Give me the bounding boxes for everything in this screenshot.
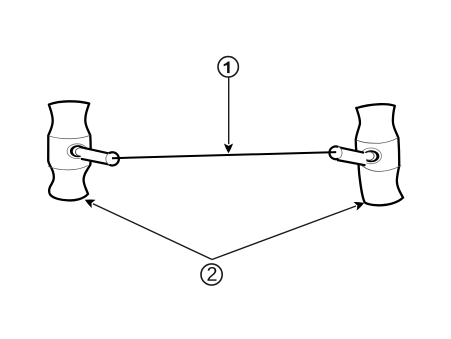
right pin body — [336, 147, 367, 165]
callout 2 label digit 2 — [207, 267, 216, 281]
callout 1 leader line — [228, 77, 230, 144]
callout 1 circle — [218, 57, 238, 77]
right cap seam arc — [338, 147, 342, 159]
right pin base seam ellipse — [365, 152, 375, 160]
left hub bold ring — [70, 145, 86, 157]
right roller body — [356, 104, 403, 205]
callout 2 left leader line — [93, 204, 212, 260]
cable between rollers — [112, 152, 336, 158]
right hub bold ring — [363, 150, 380, 162]
callout 2 circle — [201, 264, 222, 285]
callout 2 right leader line — [212, 206, 356, 260]
left cap seam arc — [106, 153, 109, 164]
left roller body — [48, 101, 90, 200]
callout 1 arrowhead — [224, 144, 233, 154]
left pin body — [80, 147, 110, 165]
callout 1 label digit 1 — [224, 62, 230, 74]
callout 2 left arrowhead — [85, 200, 96, 208]
callout 2 right arrowhead — [354, 202, 365, 210]
right hub outer ring (thin) — [360, 148, 381, 164]
left pin base seam ellipse — [75, 148, 85, 156]
right pin end cap — [329, 146, 342, 159]
left hub outer ring (thin) — [67, 144, 87, 159]
left pin end cap — [106, 152, 119, 165]
left roller upper band line — [48, 135, 90, 138]
right roller lower band line — [359, 163, 402, 172]
left roller lower band line — [48, 166, 88, 170]
right roller upper band line — [356, 138, 398, 144]
